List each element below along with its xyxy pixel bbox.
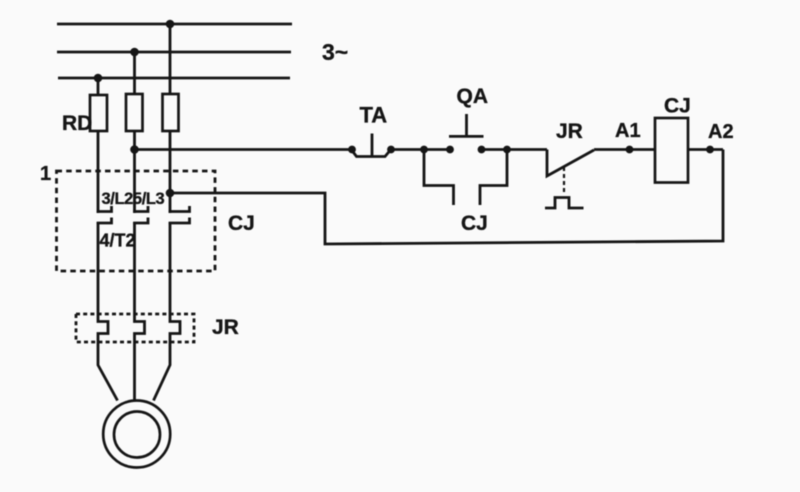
svg-text:CJ: CJ bbox=[664, 95, 691, 118]
svg-text:CJ: CJ bbox=[461, 212, 488, 235]
svg-text:3/L25/L3: 3/L25/L3 bbox=[102, 190, 165, 208]
svg-text:JR: JR bbox=[212, 316, 239, 339]
svg-text:TA: TA bbox=[360, 103, 388, 128]
svg-text:A1: A1 bbox=[615, 120, 641, 142]
svg-text:JR: JR bbox=[556, 120, 583, 143]
svg-text:A2: A2 bbox=[708, 121, 734, 143]
svg-text:QA: QA bbox=[457, 85, 489, 108]
svg-text:CJ: CJ bbox=[228, 212, 255, 235]
svg-text:RD: RD bbox=[62, 112, 92, 135]
svg-text:3~: 3~ bbox=[322, 39, 348, 65]
svg-text:4/T2: 4/T2 bbox=[100, 231, 136, 251]
svg-text:1: 1 bbox=[40, 163, 51, 185]
